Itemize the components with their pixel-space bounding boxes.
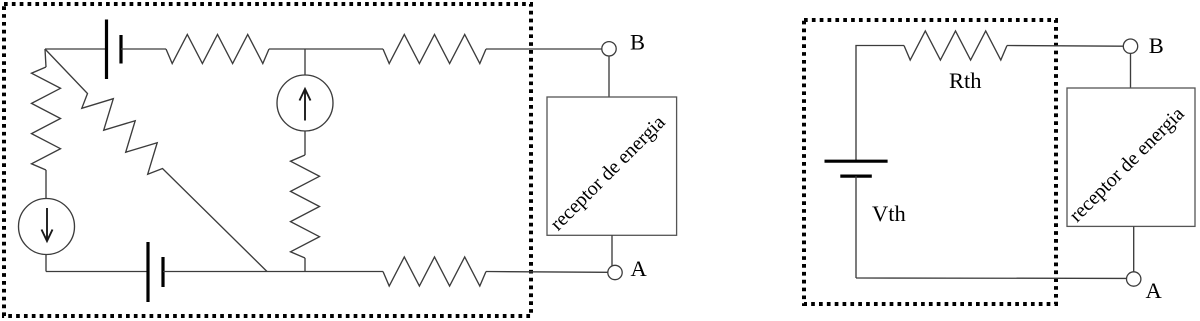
resistor R6 diagonal from node to bottom wire — [45, 49, 267, 272]
resistor R5 bottom-right — [383, 257, 486, 286]
wire battery to resistor R1 — [121, 48, 166, 50]
resistor R2 top-right — [383, 35, 486, 64]
terminal B left circuit — [602, 42, 616, 56]
resistor Rth — [904, 31, 1007, 60]
current source I1 down arrow — [46, 208, 48, 240]
svg-text:Vth: Vth — [872, 201, 906, 226]
terminal B right circuit — [1123, 39, 1137, 53]
bottom wire left to battery B2 — [46, 271, 148, 273]
resistor R3 middle vertical — [291, 155, 320, 258]
wire receptor box right to terminal A — [1133, 226, 1135, 271]
battery B2 long plate — [146, 242, 149, 302]
bottom wire to terminal A right — [856, 277, 1127, 279]
wire I1 to bottom wire — [45, 255, 47, 272]
terminal A right circuit — [1127, 272, 1141, 286]
wire Vth to bottom wire — [855, 176, 857, 278]
receptor de energia box left — [547, 97, 677, 235]
current source I1 circle — [19, 199, 75, 255]
wire terminal B down to receptor box — [608, 56, 610, 97]
wire node down to resistor R4 — [45, 49, 46, 67]
current source I2 circle — [277, 75, 333, 131]
wire Rth to terminal B — [1007, 45, 1123, 48]
battery B2 short plate — [161, 257, 164, 287]
resistor R4 left vertical — [32, 67, 61, 170]
resistor R1 top-left — [166, 35, 269, 64]
svg-text:A: A — [631, 256, 648, 281]
left circuit dotted border — [4, 4, 531, 316]
svg-text:receptor de energia: receptor de energia — [1065, 103, 1189, 227]
battery B1 short plate — [119, 35, 122, 64]
bottom wire battery to resistor R5 — [163, 271, 383, 273]
wire R1 to junction to R2 — [269, 48, 383, 50]
svg-text:receptor de energia: receptor de energia — [546, 111, 670, 235]
receptor de energia box right — [1067, 88, 1195, 226]
right circuit dotted border — [804, 20, 1056, 304]
wire node to top battery — [45, 48, 106, 50]
battery Vth short plate — [840, 175, 872, 178]
svg-text:B: B — [1149, 33, 1164, 58]
wire terminal B right down to receptor box — [1130, 53, 1132, 88]
current source I2 up arrow — [304, 90, 306, 121]
svg-text:B: B — [630, 30, 645, 55]
svg-text:A: A — [1146, 278, 1163, 303]
battery Vth long plate — [825, 160, 888, 163]
wire junction down to current source I2 — [304, 49, 306, 75]
top wire corner to resistor Rth — [856, 46, 904, 162]
wire R5 to terminal A — [486, 271, 608, 274]
battery B1 long plate — [105, 20, 108, 80]
wire R3 to bottom wire — [304, 258, 306, 272]
wire receptor box to terminal A — [611, 235, 613, 266]
wire I2 to resistor R3 — [304, 131, 306, 155]
wire R2 to terminal B — [486, 48, 602, 50]
terminal A left circuit — [608, 265, 622, 279]
wire R4 to current source I1 — [45, 170, 47, 199]
svg-text:Rth: Rth — [949, 68, 982, 93]
